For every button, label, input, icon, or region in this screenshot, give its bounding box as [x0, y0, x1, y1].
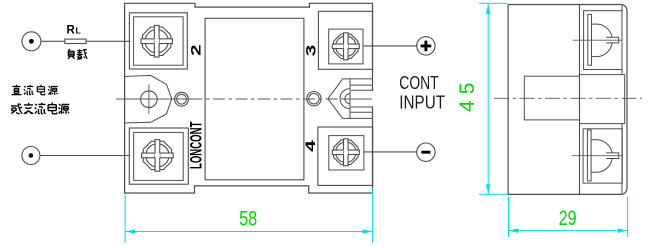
- resistor RL body: [65, 39, 86, 43]
- extension line left: [124, 195, 126, 244]
- svg-text:R: R: [67, 25, 76, 37]
- top screw side profile: [592, 24, 613, 57]
- terminal 4 outer square: [318, 127, 373, 185]
- svg-text:CONT: CONT: [399, 73, 438, 93]
- side body right edge: [579, 5, 581, 195]
- wire terminal 4 to minus: [364, 151, 417, 153]
- side view centerline: [494, 97, 642, 99]
- middle band lines: [580, 75, 625, 124]
- mounting tab: [524, 76, 579, 120]
- bottom block inner cavity: [583, 129, 622, 183]
- minus terminal: [417, 143, 435, 161]
- wire resistor RL to module terminal 2: [86, 40, 129, 42]
- arrow left: [509, 228, 519, 233]
- bottom screw slot: [606, 153, 618, 158]
- label 直流电源 (DC power) pseudo-glyphs: [12, 85, 22, 95]
- left mounting hole circle: [141, 91, 158, 108]
- right edge slot opening (gap in module edge): [371, 91, 373, 107]
- top block clamp plate: [588, 14, 592, 65]
- right edge slot lines: [351, 89, 372, 91]
- extension line bottom: [479, 193, 508, 195]
- block inner right edge: [621, 5, 623, 75]
- svg-text:4: 4: [303, 140, 318, 152]
- terminal 3 screw plate square: [329, 29, 363, 64]
- bottom screw side profile: [592, 140, 613, 173]
- svg-text:INPUT: INPUT: [399, 93, 445, 113]
- label 负载 (load) pseudo-glyphs: [68, 49, 74, 59]
- side body outline: [508, 5, 627, 195]
- svg-text:58: 58: [239, 206, 257, 230]
- dimension line 58: [125, 231, 373, 233]
- top screw centerline: [573, 39, 623, 41]
- fork semicircle: [340, 89, 350, 109]
- svg-text:LONCONT: LONCONT: [188, 122, 206, 170]
- fork body: [350, 79, 372, 118]
- extension line top: [479, 2, 507, 4]
- top screw slot: [606, 38, 618, 43]
- terminal A2 (bottom-left input circle): [22, 147, 40, 165]
- left indicator ring: [175, 92, 189, 106]
- svg-text:2: 2: [189, 44, 204, 56]
- arrow right: [363, 229, 373, 234]
- extension line right: [372, 188, 374, 243]
- arrow right: [618, 228, 628, 233]
- plus terminal: [417, 37, 435, 55]
- terminal 2 outer square: [129, 13, 187, 69]
- top block inner cavity: [584, 11, 622, 70]
- terminal A1 (top-left input circle): [22, 32, 41, 51]
- label 或交流电源 (or AC power) pseudo-glyphs: [11, 103, 22, 114]
- terminal 4 screw: [332, 139, 359, 166]
- dimension line 29: [509, 230, 628, 232]
- center label rectangle: [205, 18, 304, 180]
- svg-text:L: L: [76, 26, 81, 36]
- terminal 1 inner square: [134, 132, 184, 180]
- terminal 1 screw: [142, 140, 174, 172]
- wire terminal 3 to plus: [363, 45, 417, 47]
- module outline: [125, 3, 373, 193]
- svg-text:29: 29: [559, 206, 577, 230]
- terminal 1 outer square: [129, 128, 188, 184]
- dimension line 45: [487, 4, 489, 194]
- left mounting hole crosshair: [148, 85, 150, 115]
- terminal 2 inner square: [134, 17, 184, 65]
- module centerline: [116, 98, 191, 100]
- svg-text:3: 3: [304, 44, 319, 56]
- extension line left: [508, 197, 510, 238]
- terminal 2 screw: [141, 25, 173, 57]
- arrow up: [486, 4, 491, 14]
- arrow left: [125, 229, 135, 234]
- terminal 3 screw: [332, 33, 359, 60]
- bottom screw centerline: [572, 155, 622, 157]
- right fork slot outline: [328, 79, 372, 119]
- arrow down: [486, 184, 491, 194]
- left mounting boss: [125, 75, 172, 123]
- wire terminal A1 to resistor RL: [41, 40, 65, 42]
- terminal 3 outer square: [318, 11, 372, 69]
- right indicator ring: [307, 92, 321, 106]
- wire terminal A2 to module terminal 1: [40, 155, 129, 157]
- bottom block clamp plate: [587, 130, 591, 181]
- terminal 4 screw plate square: [329, 136, 364, 170]
- extension line right: [627, 197, 629, 238]
